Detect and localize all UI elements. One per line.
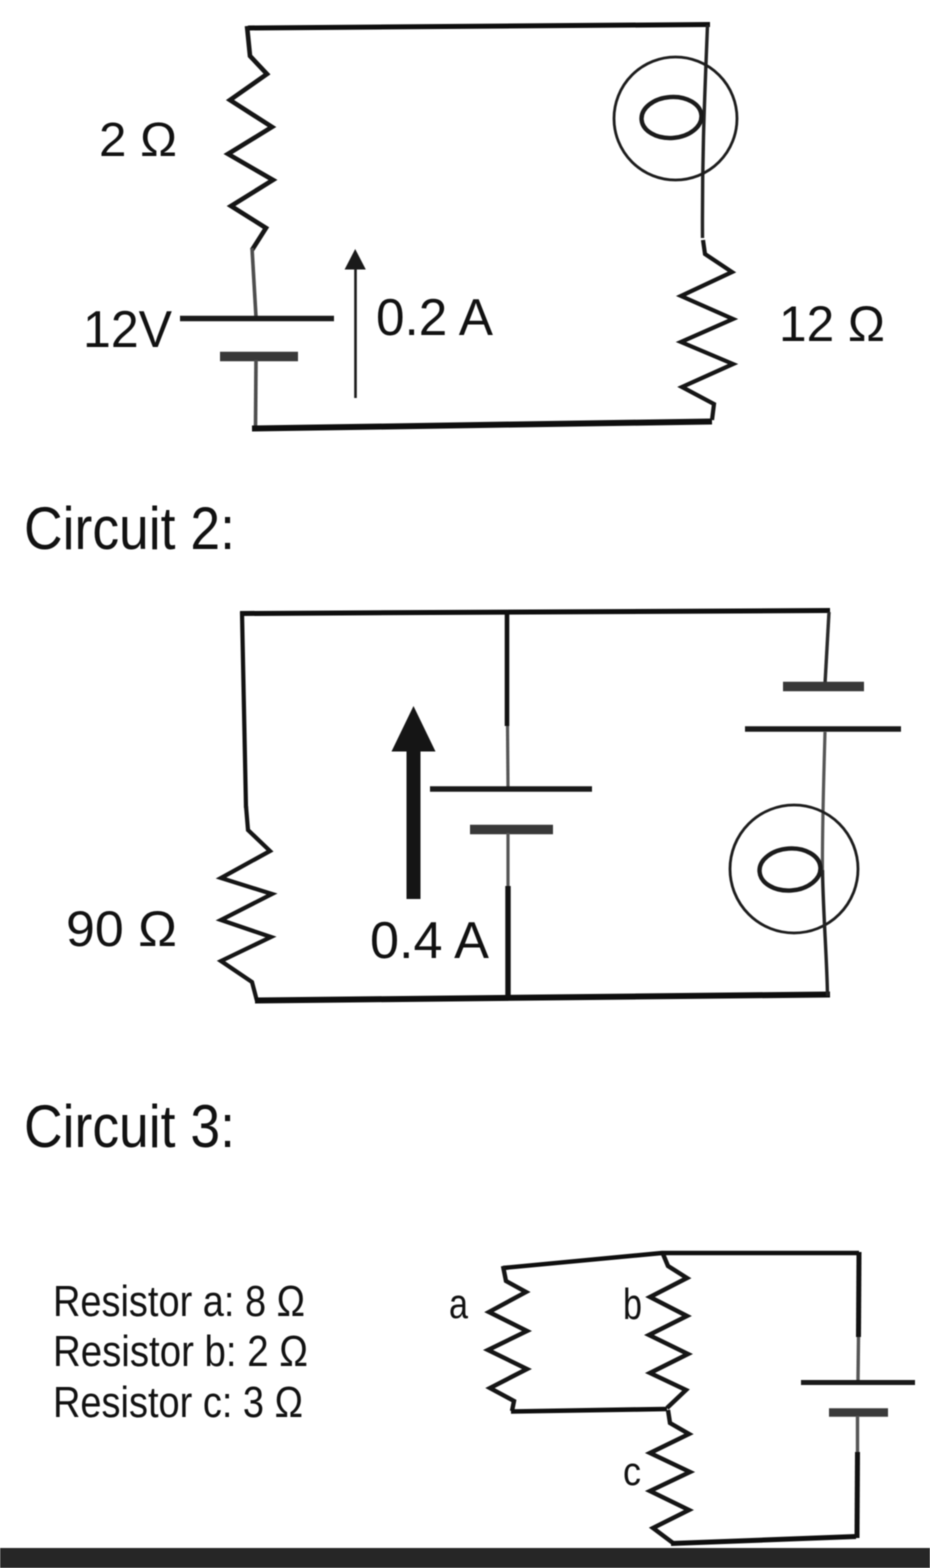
resistor b (circuit 3) <box>649 1254 688 1408</box>
wire: battery B3 to lamp <box>822 732 825 875</box>
battery B2 short plate <box>470 825 553 835</box>
wire: circuit 2 bottom <box>255 995 830 1001</box>
wire: battery B4 top lead <box>856 1337 860 1380</box>
wire: circuit 1 bottom <box>252 422 712 429</box>
svg-text:0.2 A: 0.2 A <box>376 289 493 347</box>
battery 12V short plate <box>220 352 298 362</box>
wire: circuit 3 bottom <box>671 1537 856 1544</box>
resistor 90Ω (circuit 2 left) <box>221 806 272 1001</box>
lamp L2 circle <box>730 805 858 933</box>
resistor c (circuit 3) <box>650 1410 690 1543</box>
wire: circuit 3 middle <box>511 1409 667 1412</box>
svg-text:2 Ω: 2 Ω <box>99 114 177 167</box>
svg-text:12 Ω: 12 Ω <box>779 296 885 352</box>
wire: circuit 2 top <box>240 611 830 614</box>
resistor 12Ω (circuit 1 right) <box>681 240 733 420</box>
svg-text:Circuit 2:: Circuit 2: <box>24 495 235 562</box>
svg-text:c: c <box>623 1450 641 1494</box>
wire: middle battery top lead <box>506 726 510 787</box>
svg-text:12V: 12V <box>83 301 172 359</box>
wire: circuit 2 right top lead <box>825 612 829 684</box>
wire: circuit 1 top <box>248 25 710 29</box>
svg-text:Resistor a: 8 Ω: Resistor a: 8 Ω <box>53 1277 305 1326</box>
wire: resistor to battery (circuit 1) <box>252 248 256 317</box>
battery B2 long plate <box>430 786 592 791</box>
lamp L1 inner loop <box>640 95 703 140</box>
battery B3 long plate <box>745 726 901 732</box>
wire: circuit 1 right vertical <box>702 25 707 238</box>
battery B4 long plate <box>801 1380 915 1385</box>
bottom dark bar <box>0 1548 930 1568</box>
resistor 2Ω (circuit 1 left) <box>228 26 273 250</box>
wire: lamp L2 to bottom <box>823 870 828 996</box>
wire: circuit 3 right vertical upper <box>856 1252 862 1337</box>
battery B4 short plate <box>829 1408 888 1417</box>
wire: circuit 2 middle vertical upper <box>505 610 510 726</box>
wire: battery to bottom (circuit 1) <box>254 360 258 428</box>
lamp L2 inner loop <box>758 846 822 892</box>
svg-text:90 Ω: 90 Ω <box>66 901 177 957</box>
current arrow 0.4 A (thick) <box>392 706 436 899</box>
battery B3 short plate <box>783 682 864 692</box>
wire: middle battery bottom lead <box>506 833 509 888</box>
svg-text:Resistor c: 3 Ω: Resistor c: 3 Ω <box>53 1378 303 1427</box>
resistor a (circuit 3) <box>488 1266 527 1411</box>
svg-text:Resistor b: 2 Ω: Resistor b: 2 Ω <box>53 1327 308 1376</box>
wire: circuit 3 right vertical lower <box>855 1452 861 1538</box>
wire: circuit 2 left vertical <box>242 612 246 808</box>
battery 12V long plate <box>180 316 334 322</box>
svg-text:b: b <box>623 1280 642 1329</box>
svg-text:0.4 A: 0.4 A <box>370 912 489 970</box>
wire: circuit 3 top (slanted + horizontal) <box>503 1253 859 1268</box>
wire: battery B4 bottom lead <box>856 1416 859 1452</box>
lamp L1 circle <box>614 57 737 180</box>
current arrow 0.2 A <box>345 249 366 398</box>
wire: circuit 2 middle vertical lower <box>505 886 510 998</box>
svg-text:Circuit 3:: Circuit 3: <box>24 1093 235 1160</box>
svg-text:a: a <box>449 1280 469 1327</box>
